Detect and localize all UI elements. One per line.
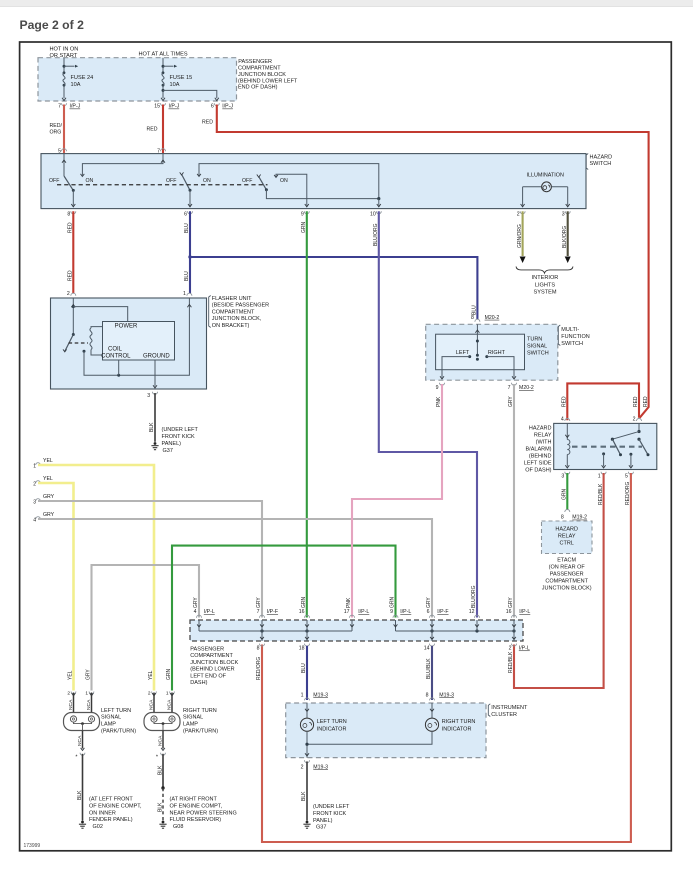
svg-text:(AT RIGHT FRONT: (AT RIGHT FRONT (170, 797, 218, 803)
MFS callout bracket (558, 325, 560, 346)
ground G37 (cluster) (306, 821, 309, 824)
hazard relay coil (566, 423, 568, 439)
svg-text:(PARK/TURN): (PARK/TURN) (101, 729, 136, 735)
svg-text:RIGHT TURN: RIGHT TURN (183, 708, 217, 714)
svg-text:(BEHIND LOWER: (BEHIND LOWER (190, 667, 234, 673)
svg-text:I/P-L: I/P-L (519, 646, 530, 652)
branch wire to pin 6 (163, 90, 217, 98)
left turn indicator lamp (306, 703, 308, 718)
svg-text:ON: ON (86, 178, 94, 184)
svg-text:RED: RED (68, 222, 74, 233)
svg-text:17: 17 (344, 609, 350, 615)
svg-text:BLU/BLK: BLU/BLK (426, 658, 432, 679)
svg-text:2: 2 (509, 646, 512, 652)
pin 7 I/P-J connector (62, 103, 67, 106)
switch S2 (hazard, OFF/ON) (182, 174, 190, 190)
svg-text:RIGHT: RIGHT (488, 350, 506, 356)
flasher power feed wiring (72, 298, 74, 335)
svg-text:M19-3: M19-3 (439, 692, 454, 698)
svg-text:FUSE 24: FUSE 24 (71, 75, 94, 81)
flasher coil control lead (118, 360, 120, 375)
svg-text:7: 7 (157, 149, 160, 155)
junction block left internal bus (199, 630, 352, 632)
svg-text:FUSE 15: FUSE 15 (170, 75, 193, 81)
cluster pin 8 M19-3 connector (430, 698, 435, 701)
svg-text:RELAY: RELAY (558, 533, 576, 539)
svg-text:GRN: GRN (562, 489, 568, 501)
svg-text:OFF: OFF (242, 178, 252, 184)
svg-text:3: 3 (562, 211, 565, 217)
svg-text:OFF: OFF (49, 178, 59, 184)
svg-text:7: 7 (58, 104, 61, 110)
svg-text:1: 1 (183, 291, 186, 297)
svg-text:NCA: NCA (68, 699, 74, 710)
svg-text:I/P-J: I/P-J (222, 104, 233, 110)
flasher contact switch (72, 333, 75, 336)
MFS pin 7 M20-2 connector (512, 383, 517, 386)
svg-text:GRY: GRY (86, 669, 92, 680)
wire S2 to pin 6 (189, 190, 191, 205)
svg-text:INSTRUMENT: INSTRUMENT (491, 705, 528, 711)
fuse F15 feed wire (162, 58, 164, 73)
svg-text:GRN: GRN (301, 222, 307, 234)
svg-text:LEFT: LEFT (456, 350, 470, 356)
turn signal switch inner box (436, 334, 525, 370)
junction block (fuse) box (38, 58, 237, 101)
svg-text:LEFT SIDE: LEFT SIDE (524, 461, 552, 467)
wire RED/ORG fuse pin7 to hazard switch pin5 (63, 105, 65, 154)
svg-text:HAZARD: HAZARD (590, 155, 613, 161)
svg-text:G37: G37 (163, 448, 173, 454)
svg-text:(AT LEFT FRONT: (AT LEFT FRONT (89, 797, 133, 803)
svg-text:ORG: ORG (50, 130, 62, 136)
svg-text:(ON REAR OF: (ON REAR OF (549, 565, 586, 571)
right lamp ground lead (162, 731, 164, 749)
switch S1 (hazard, OFF/ON) (64, 176, 73, 190)
wire BLK right lamp to splice (162, 754, 164, 788)
svg-text:RED: RED (202, 120, 213, 126)
svg-text:6: 6 (184, 211, 187, 217)
hazard relay bottom connectors (565, 472, 570, 475)
svg-text:GRN/ORG: GRN/ORG (517, 224, 523, 248)
svg-text:COMPARTMENT: COMPARTMENT (190, 653, 233, 659)
svg-text:RED/ORG: RED/ORG (256, 657, 262, 680)
svg-text:4: 4 (194, 609, 197, 615)
svg-text:2: 2 (633, 416, 636, 422)
switch mechanical link (dashed) (57, 184, 268, 186)
svg-text:GRY: GRY (43, 494, 55, 500)
junction block right internal bus (396, 630, 515, 632)
svg-text:16: 16 (506, 609, 512, 615)
svg-text:RED/ORG: RED/ORG (625, 482, 631, 505)
svg-text:I/P-L: I/P-L (204, 609, 215, 615)
pin 6 I/P-J connector (214, 103, 219, 106)
svg-text:GRY: GRY (508, 597, 514, 608)
svg-text:RED: RED (643, 396, 649, 407)
svg-text:I/P-J: I/P-J (70, 104, 81, 110)
svg-text:Page 2 of 2: Page 2 of 2 (20, 18, 85, 32)
svg-text:I/P-J: I/P-J (169, 104, 180, 110)
fuse F15 (FUSE 15 10A) (162, 71, 165, 74)
wire S1 to pin 8 (72, 190, 74, 205)
svg-text:TURN: TURN (527, 337, 542, 343)
svg-text:ILLUMINATION: ILLUMINATION (527, 173, 564, 179)
svg-text:6: 6 (211, 104, 214, 110)
wire S3 pivot to pin 10 node (266, 190, 378, 199)
svg-text:END OF DASH): END OF DASH) (238, 85, 278, 91)
svg-text:YEL: YEL (148, 670, 154, 680)
svg-text:RED: RED (633, 396, 639, 407)
wire BLK flasher pin3 to ground G37 (154, 393, 156, 442)
svg-text:GROUND: GROUND (143, 354, 170, 360)
svg-text:NCA: NCA (86, 699, 92, 710)
ground G02 (81, 821, 84, 824)
wire BLU hazard pin6 to flasher pin1 and MFS pin8 (189, 211, 191, 293)
svg-text:NCA: NCA (167, 699, 173, 710)
svg-text:COIL: COIL (108, 346, 123, 352)
svg-text:RED: RED (147, 127, 158, 133)
svg-text:CLUSTER: CLUSTER (491, 712, 517, 718)
svg-text:PANEL): PANEL) (162, 441, 182, 447)
svg-text:I/P-L: I/P-L (519, 609, 530, 615)
svg-text:CTRL: CTRL (560, 540, 574, 546)
svg-text:BLK: BLK (301, 791, 307, 801)
svg-text:RED: RED (68, 270, 74, 281)
flasher ground lead to pin 3 (154, 360, 156, 387)
svg-text:FENDER PANEL): FENDER PANEL) (89, 817, 133, 823)
svg-text:18: 18 (299, 646, 305, 652)
svg-text:LAMP: LAMP (183, 722, 198, 728)
hazard relay ctrl box (542, 521, 593, 554)
svg-text:YEL: YEL (43, 458, 53, 464)
svg-text:BLK: BLK (149, 422, 155, 432)
svg-text:LEFT END OF: LEFT END OF (190, 673, 226, 679)
svg-text:PASSENGER: PASSENGER (190, 647, 224, 653)
wire GRN/ORG illumination pin2 to interior lights (522, 211, 524, 256)
MFS common feed (476, 324, 478, 355)
svg-text:7: 7 (508, 385, 511, 391)
svg-text:1: 1 (598, 473, 601, 479)
wire RED hazard pin8 to flasher pin2 (72, 211, 74, 293)
svg-text:LEFT TURN: LEFT TURN (101, 708, 131, 714)
hazard switch box (41, 154, 586, 209)
wire BLU/BLK junction pin14 to cluster pin8 (431, 646, 433, 700)
svg-text:7: 7 (257, 609, 260, 615)
flasher unit inner module box (103, 322, 175, 361)
wire GRN hazard pin9 to junction block pin16 (306, 211, 308, 617)
fuse F24 (FUSE 24 10A) (63, 71, 66, 74)
flasher coil (91, 327, 103, 328)
svg-text:15: 15 (154, 104, 160, 110)
svg-text:173999: 173999 (24, 843, 41, 849)
svg-text:8: 8 (561, 515, 564, 521)
svg-text:I/P-L: I/P-L (400, 609, 411, 615)
wire BLK/ORG illumination pin3 to interior lights (567, 211, 569, 256)
ground G37 (flasher) (154, 442, 157, 445)
svg-text:BLU: BLU (184, 271, 190, 281)
svg-text:FLUID RESERVOIR): FLUID RESERVOIR) (170, 817, 222, 823)
svg-text:(BEHIND: (BEHIND (529, 454, 552, 460)
svg-text:SIGNAL: SIGNAL (183, 715, 203, 721)
svg-text:BLK: BLK (158, 802, 164, 812)
svg-text:POWER: POWER (115, 323, 138, 329)
svg-text:(WITH: (WITH (536, 440, 552, 446)
svg-text:9: 9 (436, 385, 439, 391)
flasher pin 1 connector (187, 293, 192, 296)
svg-text:GRN: GRN (390, 597, 396, 609)
svg-text:9: 9 (390, 609, 393, 615)
hazard relay switch contacts (638, 423, 640, 431)
svg-text:M20-2: M20-2 (485, 315, 500, 321)
svg-text:COMPARTMENT: COMPARTMENT (238, 66, 281, 72)
svg-text:10: 10 (370, 211, 376, 217)
svg-text:SWITCH: SWITCH (527, 351, 549, 357)
page top bar (0, 0, 693, 7)
wire RED loop hazard relay pins 4-2 (567, 383, 639, 420)
svg-text:RED/BLK: RED/BLK (598, 483, 604, 505)
svg-text:8: 8 (471, 315, 474, 321)
svg-text:GRY: GRY (426, 597, 432, 608)
svg-text:FLASHER UNIT: FLASHER UNIT (212, 296, 252, 302)
svg-text:DASH): DASH) (190, 680, 207, 686)
svg-text:(UNDER LEFT: (UNDER LEFT (162, 427, 199, 433)
svg-text:RELAY: RELAY (534, 433, 552, 439)
svg-text:NEAR POWER STEERING: NEAR POWER STEERING (170, 810, 237, 816)
svg-text:JUNCTION BLOCK,: JUNCTION BLOCK, (212, 316, 262, 322)
svg-text:2: 2 (67, 691, 70, 697)
svg-text:GRY: GRY (508, 396, 514, 407)
svg-text:12: 12 (469, 609, 475, 615)
svg-text:(PARK/TURN): (PARK/TURN) (183, 729, 218, 735)
svg-text:BLU: BLU (301, 663, 307, 673)
hazard relay mechanical link (dashed) (572, 446, 642, 448)
svg-text:FRONT KICK: FRONT KICK (162, 434, 196, 440)
svg-text:I/P-F: I/P-F (267, 609, 278, 615)
svg-text:ON INNER: ON INNER (89, 810, 116, 816)
wire RED fuse pin15 to hazard switch pin7 (162, 105, 164, 154)
svg-text:1: 1 (85, 691, 88, 697)
svg-text:5: 5 (58, 149, 61, 155)
switch S3 (hazard, OFF/ON) (259, 177, 267, 190)
svg-text:16: 16 (299, 609, 305, 615)
svg-text:PNK: PNK (346, 597, 352, 608)
cluster internal ground bus (306, 731, 308, 757)
MFS pin 9 connector (440, 383, 445, 386)
wire GRN junction block pin9 to right lamp (172, 546, 396, 691)
svg-text:BLU: BLU (184, 223, 190, 233)
instrument cluster box (286, 703, 486, 758)
wire RED/ORG relay pin5 to junction block pin8 (262, 473, 631, 842)
svg-text:SIGNAL: SIGNAL (527, 344, 547, 350)
wire BLU junction pin18 to cluster pin1 (306, 646, 308, 700)
MFS pin 8 M20-2 connector (475, 319, 480, 322)
svg-text:8: 8 (67, 211, 70, 217)
svg-text:RED: RED (562, 396, 568, 407)
svg-text:ON: ON (203, 178, 211, 184)
svg-text:HOT AT ALL TIMES: HOT AT ALL TIMES (139, 51, 188, 57)
svg-text:CONTROL: CONTROL (101, 354, 131, 360)
svg-text:(UNDER LEFT: (UNDER LEFT (313, 804, 350, 810)
svg-text:LEFT TURN: LEFT TURN (317, 719, 347, 725)
svg-text:FUNCTION: FUNCTION (561, 334, 589, 340)
hazard relay pin 2 connector (637, 419, 642, 421)
svg-text:ON: ON (280, 178, 288, 184)
svg-text:YEL: YEL (43, 476, 53, 482)
svg-text:3: 3 (147, 393, 150, 399)
svg-text:LAMP: LAMP (101, 722, 116, 728)
svg-text:6: 6 (427, 609, 430, 615)
svg-text:GRN: GRN (166, 669, 172, 681)
svg-text:GRY: GRY (256, 597, 262, 608)
illumination lamp leads (523, 186, 542, 188)
svg-text:OF ENGINE COMPT,: OF ENGINE COMPT, (170, 803, 223, 809)
flasher output wiring to pin 1 (84, 298, 189, 375)
svg-text:2: 2 (517, 211, 520, 217)
svg-text:RIGHT TURN: RIGHT TURN (442, 719, 476, 725)
svg-text:M19-3: M19-3 (313, 692, 328, 698)
svg-text:RED/BLK: RED/BLK (508, 651, 514, 673)
svg-text:8: 8 (257, 646, 260, 652)
svg-text:OFF: OFF (166, 178, 176, 184)
hazard switch pin 5 (62, 149, 67, 152)
svg-text:SYSTEM: SYSTEM (533, 290, 556, 296)
flasher callout bracket (209, 296, 211, 328)
svg-text:NCA: NCA (158, 735, 164, 746)
svg-text:3: 3 (561, 473, 564, 479)
svg-text:14: 14 (424, 646, 430, 652)
svg-text:I/P-L: I/P-L (358, 609, 369, 615)
svg-text:PASSENGER: PASSENGER (238, 59, 272, 65)
hazard switch pin 7 (161, 149, 166, 152)
wire BLK cluster pin2 to ground G37 (306, 761, 308, 820)
svg-text:G08: G08 (173, 824, 183, 830)
flasher mechanical link (dashed) (69, 342, 89, 344)
wire BLK left lamp to ground G02 (82, 754, 84, 821)
junction block internal drops (198, 620, 200, 631)
right turn signal lamp body (144, 713, 180, 731)
svg-text:COMPARTMENT: COMPARTMENT (212, 309, 255, 315)
svg-text:9: 9 (301, 211, 304, 217)
svg-text:2: 2 (148, 691, 151, 697)
multi-function switch box (426, 324, 558, 380)
svg-text:GRY: GRY (43, 512, 55, 518)
ground G08 (162, 821, 165, 824)
svg-text:NCA: NCA (149, 699, 155, 710)
svg-text:GRY: GRY (193, 597, 199, 608)
hazard relay output contacts (602, 452, 605, 455)
junction block strip bottom connectors (260, 644, 265, 647)
svg-text:INDICATOR: INDICATOR (317, 727, 347, 733)
svg-text:ETACM: ETACM (557, 558, 576, 564)
wire node to pin 10 (378, 199, 380, 206)
svg-text:GRN: GRN (301, 597, 307, 609)
svg-text:BLU/ORG: BLU/ORG (373, 223, 379, 246)
svg-text:5: 5 (625, 473, 628, 479)
hazard switch bottom connectors (71, 211, 76, 214)
interior lights system brace (516, 267, 573, 274)
svg-text:(BESIDE PASSENGER: (BESIDE PASSENGER (212, 303, 269, 309)
svg-text:FRONT KICK: FRONT KICK (313, 811, 347, 817)
cluster pin 1 M19-3 connector (305, 698, 310, 701)
pin 15 I/P-J connector (161, 103, 166, 106)
svg-text:SWITCH: SWITCH (590, 161, 612, 167)
wire RED fuse pin6 to hazard relay pin2 (217, 105, 649, 418)
svg-text:ON BRACKET): ON BRACKET) (212, 323, 250, 329)
svg-text:HOT IN ON: HOT IN ON (50, 47, 79, 53)
svg-text:OF ENGINE COMPT,: OF ENGINE COMPT, (89, 803, 142, 809)
cluster pin 2 M19-3 connector (305, 760, 310, 763)
wire fuse F24 to pin 7 (63, 85, 65, 98)
svg-text:2: 2 (67, 291, 70, 297)
svg-text:PNK: PNK (436, 396, 442, 407)
svg-text:SIGNAL: SIGNAL (101, 715, 121, 721)
svg-text:4: 4 (561, 416, 564, 422)
svg-text:PANEL): PANEL) (313, 818, 333, 824)
svg-text:LIGHTS: LIGHTS (535, 282, 555, 288)
svg-text:RED/: RED/ (50, 123, 63, 129)
wire RED/BLK relay pin1 to junction block pin2 (514, 473, 604, 688)
svg-text:G02: G02 (93, 824, 103, 830)
svg-text:BLK: BLK (158, 765, 164, 775)
flasher unit box (51, 298, 207, 389)
svg-text:COMPARTMENT: COMPARTMENT (545, 579, 588, 585)
svg-text:1: 1 (301, 692, 304, 698)
svg-text:MULTI-: MULTI- (561, 327, 579, 333)
svg-text:NCA: NCA (77, 735, 83, 746)
svg-text:INDICATOR: INDICATOR (442, 727, 472, 733)
junction block strip box (190, 620, 523, 641)
svg-text:BLU: BLU (472, 305, 478, 315)
hazard relay box (554, 423, 657, 469)
cluster callout bracket (488, 704, 490, 717)
wire GRN relay pin3 to ETACM pin8 (566, 473, 568, 510)
wire GRY MFS pin7 to junction block pin16 (513, 384, 515, 618)
svg-text:HAZARD: HAZARD (529, 426, 552, 432)
hazard relay pin 4 connector (565, 419, 570, 421)
wire GRY junction block pin4 to left lamp (92, 565, 200, 691)
svg-text:YEL: YEL (68, 670, 74, 680)
flasher pin 3 connector (153, 392, 158, 395)
wire BLU/ORG hazard pin10 to junction block pin12 (379, 211, 477, 617)
svg-text:INTERIOR: INTERIOR (532, 275, 559, 281)
svg-text:M19-2: M19-2 (572, 515, 587, 521)
svg-text:HAZARD: HAZARD (555, 526, 578, 532)
right turn indicator lamp (431, 703, 433, 718)
svg-text:1: 1 (166, 691, 169, 697)
svg-text:M19-3: M19-3 (313, 764, 328, 770)
svg-text:8: 8 (426, 692, 429, 698)
svg-text:B/ALARM): B/ALARM) (526, 447, 552, 453)
wire fuse F15 to pin 15 (162, 85, 164, 98)
svg-text:BLK/ORG: BLK/ORG (562, 226, 568, 248)
svg-text:10A: 10A (170, 82, 180, 88)
wire PNK MFS pin9 to junction block pin17 (352, 384, 442, 618)
left turn signal lamp body (64, 713, 100, 731)
fuse F24 feed wire (63, 58, 65, 73)
junction block strip top connectors (197, 615, 202, 618)
svg-text:(BEHIND LOWER LEFT: (BEHIND LOWER LEFT (238, 78, 298, 84)
svg-text:BLK: BLK (77, 790, 83, 800)
svg-text:G37: G37 (316, 825, 326, 831)
svg-text:JUNCTION BLOCK: JUNCTION BLOCK (238, 72, 286, 78)
svg-text:M20-2: M20-2 (519, 385, 534, 391)
svg-text:BLU/ORG: BLU/ORG (471, 585, 477, 608)
svg-text:2: 2 (301, 764, 304, 770)
svg-text:JUNCTION BLOCK: JUNCTION BLOCK (190, 660, 238, 666)
wire BLK splice to ground G08 (dashed) (162, 788, 164, 821)
ETACM pin 8 M19-2 connector (565, 510, 570, 513)
svg-text:JUNCTION BLOCK): JUNCTION BLOCK) (542, 586, 592, 592)
